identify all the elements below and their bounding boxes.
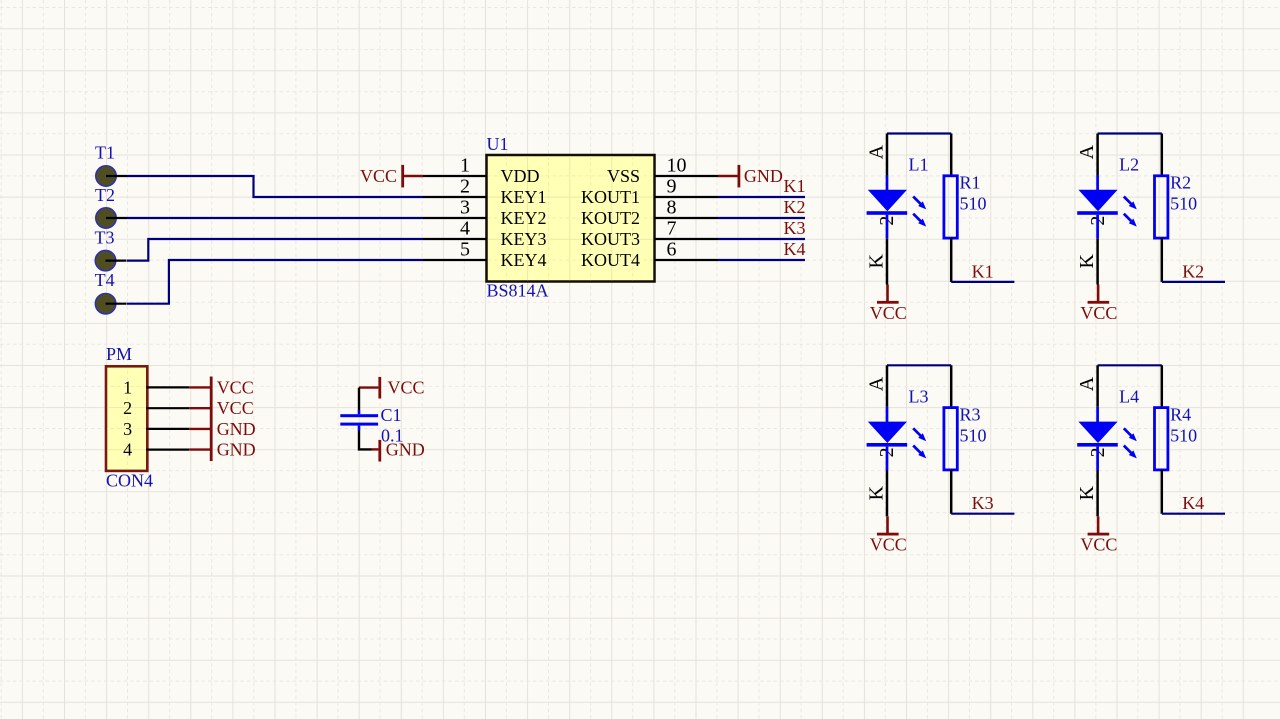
wire below R4 bbox=[1161, 470, 1164, 514]
svg-text:R2: R2 bbox=[1170, 173, 1191, 193]
svg-text:4: 4 bbox=[460, 218, 470, 240]
svg-text:K1: K1 bbox=[972, 261, 994, 281]
svg-text:4: 4 bbox=[123, 440, 132, 460]
svg-text:T1: T1 bbox=[95, 143, 115, 163]
wire net K2 bbox=[718, 217, 805, 219]
U1 pin 6 KOUT4 bbox=[581, 239, 718, 271]
svg-text:R1: R1 bbox=[960, 173, 981, 193]
svg-text:VSS: VSS bbox=[607, 166, 640, 186]
wire resistor branch R1 bbox=[950, 134, 953, 176]
svg-text:3: 3 bbox=[460, 197, 470, 219]
wire net K4 (output) bbox=[1162, 513, 1225, 515]
LED L2 bbox=[1077, 175, 1137, 239]
svg-text:VCC: VCC bbox=[870, 535, 907, 555]
svg-text:KOUT2: KOUT2 bbox=[581, 208, 640, 228]
svg-text:VCC: VCC bbox=[1080, 535, 1117, 555]
svg-text:L2: L2 bbox=[1119, 155, 1139, 175]
wire T3 to U1 KEY3 bbox=[127, 239, 423, 261]
PM pin 2 bbox=[123, 398, 189, 418]
LED L4 bbox=[1077, 407, 1137, 471]
power port VCC (L1 cathode) bbox=[870, 285, 907, 323]
resistor R1 bbox=[944, 176, 957, 238]
PM pin 3 bbox=[123, 419, 189, 439]
wire cathode L2 bbox=[1096, 239, 1099, 285]
svg-text:A: A bbox=[1076, 376, 1098, 391]
connector PM CON4 body bbox=[106, 366, 147, 471]
svg-text:VDD: VDD bbox=[501, 166, 540, 186]
IC U1 BS814A body bbox=[487, 155, 655, 282]
power port VCC (U1 pin 1) bbox=[360, 165, 423, 188]
svg-text:510: 510 bbox=[960, 425, 987, 445]
U1 pin 5 KEY4 bbox=[423, 239, 547, 271]
power port VCC (L3 cathode) bbox=[870, 516, 907, 554]
svg-text:3: 3 bbox=[123, 419, 132, 439]
wire cathode L1 bbox=[886, 239, 889, 285]
svg-text:K3: K3 bbox=[784, 218, 806, 238]
wire net K2 (output) bbox=[1162, 281, 1225, 283]
svg-text:A: A bbox=[865, 376, 887, 391]
svg-text:K4: K4 bbox=[784, 239, 806, 259]
svg-text:510: 510 bbox=[1170, 425, 1197, 445]
wire C1 top lead bbox=[358, 388, 360, 410]
power port GND (C1 bottom) bbox=[372, 439, 425, 461]
wire net K1 bbox=[718, 196, 805, 198]
wire anode branch L2 bbox=[1096, 134, 1099, 176]
wire anode branch L4 bbox=[1096, 365, 1099, 407]
svg-text:KOUT1: KOUT1 bbox=[581, 187, 640, 207]
svg-text:K1: K1 bbox=[784, 176, 806, 196]
svg-text:VCC: VCC bbox=[217, 398, 254, 418]
svg-text:KOUT4: KOUT4 bbox=[581, 250, 640, 270]
wire resistor branch R2 bbox=[1161, 134, 1164, 176]
test point T2 bbox=[96, 208, 127, 229]
test point T3 bbox=[95, 250, 126, 271]
resistor R2 bbox=[1155, 176, 1168, 238]
power port VCC (C1 top) bbox=[359, 377, 425, 399]
svg-text:VCC: VCC bbox=[388, 378, 425, 398]
svg-text:C1: C1 bbox=[381, 405, 402, 425]
svg-text:K: K bbox=[865, 485, 887, 500]
U1 pin 4 KEY3 bbox=[423, 218, 547, 250]
wire C1 bottom lead bbox=[359, 431, 372, 450]
svg-text:1: 1 bbox=[460, 155, 470, 177]
LED L3 bbox=[867, 407, 927, 471]
wire below R3 bbox=[950, 470, 953, 514]
capacitor C1 bbox=[340, 410, 378, 431]
LED L1 bbox=[867, 175, 927, 239]
wire anode branch L3 bbox=[886, 365, 889, 407]
resistor R4 bbox=[1155, 408, 1168, 470]
svg-text:A: A bbox=[865, 144, 887, 159]
svg-text:K2: K2 bbox=[1182, 261, 1204, 281]
svg-text:GND: GND bbox=[386, 439, 425, 459]
svg-text:KEY4: KEY4 bbox=[501, 250, 547, 270]
power port GND (PM pin 4) bbox=[189, 440, 256, 460]
wire net K4 bbox=[718, 259, 805, 261]
power port VCC (L2 cathode) bbox=[1080, 285, 1117, 323]
svg-text:U1: U1 bbox=[487, 134, 509, 154]
U1 pin 8 KOUT2 bbox=[581, 197, 718, 229]
svg-text:T2: T2 bbox=[95, 185, 115, 205]
svg-text:KEY3: KEY3 bbox=[501, 229, 547, 249]
svg-text:R3: R3 bbox=[960, 404, 981, 424]
svg-text:R4: R4 bbox=[1170, 404, 1191, 424]
wire below R2 bbox=[1161, 238, 1164, 282]
svg-text:2: 2 bbox=[123, 398, 132, 418]
power port GND (U1 pin 10) bbox=[718, 165, 783, 188]
test point T4 bbox=[95, 293, 126, 314]
wire top net (LED L4 / R4) bbox=[1098, 364, 1162, 366]
wire T2 to U1 KEY2 bbox=[127, 217, 423, 219]
svg-text:T3: T3 bbox=[95, 228, 115, 248]
power port VCC (PM pin 1) bbox=[189, 377, 254, 397]
svg-text:6: 6 bbox=[667, 239, 677, 261]
svg-text:K2: K2 bbox=[784, 197, 806, 217]
wire top net (LED L1 / R1) bbox=[887, 132, 951, 134]
svg-text:L1: L1 bbox=[909, 155, 929, 175]
wire net K3 (output) bbox=[951, 513, 1014, 515]
svg-text:A: A bbox=[1076, 144, 1098, 159]
svg-text:510: 510 bbox=[960, 194, 987, 214]
svg-text:KEY1: KEY1 bbox=[501, 187, 547, 207]
wire below R1 bbox=[950, 238, 953, 282]
U1 pin 1 VDD bbox=[423, 155, 540, 187]
svg-text:PM: PM bbox=[106, 344, 132, 364]
svg-text:VCC: VCC bbox=[360, 166, 397, 186]
svg-text:GND: GND bbox=[217, 440, 256, 460]
wire cathode L4 bbox=[1096, 471, 1099, 517]
wire cathode L3 bbox=[886, 471, 889, 517]
svg-text:T4: T4 bbox=[95, 270, 115, 290]
svg-text:10: 10 bbox=[667, 155, 687, 177]
svg-text:L3: L3 bbox=[909, 386, 929, 406]
svg-text:CON4: CON4 bbox=[106, 471, 153, 491]
svg-text:VCC: VCC bbox=[1080, 303, 1117, 323]
U1 pin 7 KOUT3 bbox=[581, 218, 718, 250]
svg-text:GND: GND bbox=[217, 419, 256, 439]
wire T4 to U1 KEY4 bbox=[127, 260, 423, 304]
wire top net (LED L2 / R2) bbox=[1098, 132, 1162, 134]
U1 pin 10 VSS bbox=[607, 155, 718, 187]
resistor R3 bbox=[944, 408, 957, 470]
svg-text:VCC: VCC bbox=[217, 377, 254, 397]
svg-text:K4: K4 bbox=[1182, 493, 1204, 513]
svg-text:510: 510 bbox=[1170, 194, 1197, 214]
svg-text:5: 5 bbox=[460, 239, 470, 261]
svg-text:BS814A: BS814A bbox=[487, 280, 549, 300]
U1 pin 2 KEY1 bbox=[423, 176, 547, 208]
svg-text:K3: K3 bbox=[972, 493, 994, 513]
wire anode branch L1 bbox=[886, 134, 889, 176]
U1 pin 3 KEY2 bbox=[423, 197, 547, 229]
svg-text:K: K bbox=[1076, 485, 1098, 500]
svg-text:9: 9 bbox=[667, 176, 677, 198]
svg-text:K: K bbox=[1076, 254, 1098, 269]
svg-text:GND: GND bbox=[744, 166, 783, 186]
power port GND (PM pin 3) bbox=[189, 419, 256, 439]
test point T1 bbox=[96, 166, 127, 187]
svg-text:8: 8 bbox=[667, 197, 677, 219]
wire top net (LED L3 / R3) bbox=[887, 364, 951, 366]
svg-text:KEY2: KEY2 bbox=[501, 208, 547, 228]
wire net K3 bbox=[718, 238, 805, 240]
svg-text:L4: L4 bbox=[1119, 386, 1139, 406]
svg-text:KOUT3: KOUT3 bbox=[581, 229, 640, 249]
power port VCC (L4 cathode) bbox=[1080, 516, 1117, 554]
PM pin 1 bbox=[123, 377, 189, 397]
wire T1 to U1 KEY1 bbox=[127, 176, 423, 197]
svg-text:K: K bbox=[865, 254, 887, 269]
PM pin 4 bbox=[123, 440, 189, 460]
U1 pin 9 KOUT1 bbox=[581, 176, 718, 208]
wire resistor branch R4 bbox=[1161, 365, 1164, 407]
wire resistor branch R3 bbox=[950, 365, 953, 407]
svg-text:1: 1 bbox=[123, 377, 132, 397]
power port VCC (PM pin 2) bbox=[189, 398, 254, 418]
svg-text:VCC: VCC bbox=[870, 303, 907, 323]
power port bar (PM) bbox=[210, 377, 213, 462]
svg-text:2: 2 bbox=[460, 176, 470, 198]
svg-text:7: 7 bbox=[667, 218, 677, 240]
wire net K1 (output) bbox=[951, 281, 1014, 283]
